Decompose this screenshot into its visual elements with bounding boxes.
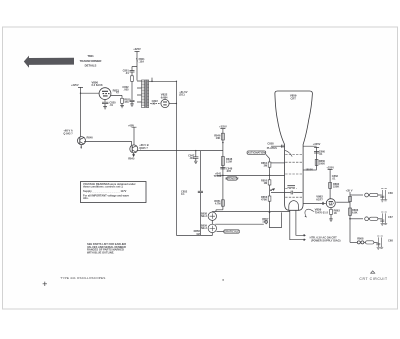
astigmatism control box	[247, 151, 266, 154]
arrow to T801 transformer details	[24, 56, 74, 68]
fuse F801	[136, 59, 138, 62]
capacitor C860	[314, 152, 319, 153]
capacitor C848	[220, 168, 225, 169]
resistor R860	[315, 159, 318, 165]
svg-text:.01: .01	[109, 103, 113, 107]
svg-text:T5470-31-2: T5470-31-2	[315, 211, 329, 215]
wire Q843 collector to Q845	[84, 141, 132, 145]
wire transformer secondary top to V822 plate line	[149, 78, 177, 82]
title TYPE oscilloscopes	[60, 276, 105, 280]
svg-text:(POWER SUPPLY DIAG): (POWER SUPPLY DIAG)	[311, 238, 341, 242]
svg-text:T801: T801	[87, 54, 94, 58]
resistor R856	[269, 185, 271, 196]
transistor Q845	[128, 143, 149, 161]
capacitor cluster pin3	[376, 236, 383, 249]
svg-text:100K: 100K	[319, 162, 325, 166]
lamp B858	[201, 211, 217, 220]
wire V822 cathode to bus	[169, 103, 176, 105]
resistor R820	[121, 98, 124, 103]
note heater supply	[310, 236, 341, 243]
connector pin 3	[350, 241, 377, 244]
tube V862	[316, 195, 335, 208]
svg-text:DETAILS: DETAILS	[85, 63, 97, 67]
svg-text:C66: C66	[388, 191, 393, 195]
svg-text:ASTIGMATISM: ASTIGMATISM	[247, 151, 265, 155]
svg-text:R868: R868	[357, 237, 364, 241]
capacitor cluster pin1	[380, 188, 387, 202]
resistor R855	[269, 175, 271, 179]
wire long vertical bus	[175, 81, 177, 235]
svg-text:NE-2: NE-2	[201, 214, 207, 218]
svg-text:C858: C858	[267, 141, 274, 145]
svg-text:+325V: +325V	[219, 125, 227, 129]
resistor R801	[131, 76, 134, 82]
svg-text:Supply _ _ _ _ _ _ _ _ _ _ _ _: Supply _ _ _ _ _ _ _ _ _ _ _ _ _ 117V	[83, 189, 127, 193]
wire right bus	[349, 192, 351, 242]
svg-text:6.3 6AU8: 6.3 6AU8	[92, 83, 104, 87]
svg-text:.01: .01	[125, 71, 129, 75]
node +325V right of funnel	[313, 142, 321, 146]
wire second row	[215, 223, 264, 225]
capacitor C801	[130, 71, 135, 76]
svg-text:1K: 1K	[334, 211, 337, 215]
registration cross	[43, 282, 47, 286]
paragraph note	[87, 242, 126, 254]
svg-text:.001: .001	[189, 156, 195, 160]
svg-text:Q 843 ?: Q 843 ?	[63, 132, 73, 136]
svg-text:6GF7: 6GF7	[316, 197, 323, 201]
connector pin 1	[350, 193, 381, 197]
svg-text:WITH BLUE OUTLINE.: WITH BLUE OUTLINE.	[87, 250, 115, 254]
svg-text:470K: 470K	[261, 197, 267, 201]
ground	[103, 107, 107, 109]
node +325V center column	[219, 125, 227, 129]
CRT gun	[289, 201, 299, 211]
connector pin 2	[350, 217, 381, 221]
resistor R862	[329, 182, 332, 188]
svg-text:-1850V: -1850V	[305, 168, 314, 172]
svg-text:10K: 10K	[216, 136, 221, 140]
svg-text:R840: R840	[87, 136, 94, 140]
potentiometer wiper	[270, 189, 272, 191]
wire divider tap line	[199, 151, 201, 236]
node +61.5V	[179, 90, 188, 97]
wire CRT base to V862	[303, 202, 326, 204]
node grid junction	[222, 175, 224, 177]
svg-text:+35 V: +35 V	[346, 189, 353, 193]
node +325V over V862	[326, 165, 334, 169]
node +325V left	[71, 83, 79, 87]
wire lamp chain bottom to bus	[176, 233, 212, 236]
svg-text:+68V: +68V	[128, 123, 134, 127]
wire	[132, 67, 137, 81]
wire to lamp chain	[216, 210, 223, 212]
wire neck right to V862 column	[303, 169, 317, 171]
tube V800	[92, 80, 111, 101]
svg-text:these conditions: controls set: these conditions: controls set ( )	[83, 185, 123, 189]
svg-text:6.8K: 6.8K	[352, 210, 358, 214]
svg-text:TP848: TP848	[214, 174, 222, 178]
heater resistors	[357, 237, 364, 241]
svg-text:(DC): (DC)	[179, 92, 185, 96]
svg-text:6AU4: 6AU4	[161, 95, 168, 99]
svg-text:R845: R845	[128, 157, 135, 161]
svg-text:4.7M: 4.7M	[215, 201, 221, 205]
wire grid row to CRT	[223, 174, 285, 176]
tube V822	[161, 93, 169, 108]
label V859 type with leader	[315, 208, 329, 215]
svg-text:For all IMPORTANT voltage and: For all IMPORTANT voltage and wave	[83, 193, 129, 197]
wire wiper to vertical centering plate	[271, 192, 302, 194]
svg-text:15K: 15K	[262, 219, 267, 223]
svg-text:info.: info.	[83, 196, 89, 200]
svg-text:Q845 ?: Q845 ?	[139, 146, 148, 150]
terminal	[265, 220, 268, 223]
svg-text:2.2M: 2.2M	[226, 160, 232, 164]
wire center column	[222, 130, 224, 210]
wire astig wiper to CRT	[271, 162, 285, 164]
wire V822 anode left	[150, 103, 161, 105]
capacitor cluster pin2	[380, 212, 387, 226]
resistor R866	[349, 208, 352, 215]
svg-text:CRT: CRT	[291, 97, 297, 101]
ground	[130, 102, 134, 107]
test point box TP848	[227, 177, 237, 180]
svg-text:.01: .01	[319, 152, 323, 156]
wire	[316, 149, 318, 170]
label T801 TRANSFORMER DETAILS	[80, 54, 102, 67]
svg-text:+325V: +325V	[71, 83, 79, 87]
lamp B859	[201, 223, 217, 232]
center dot	[222, 279, 224, 281]
resistor R851	[222, 200, 225, 206]
capacitor C802	[130, 100, 135, 101]
svg-text:C67: C67	[388, 215, 393, 219]
capacitor C852	[198, 191, 203, 192]
svg-text:C68: C68	[388, 239, 393, 243]
CRT base pins	[290, 210, 304, 240]
wire V800 cathode right	[111, 95, 122, 98]
svg-text:TYPE 441 OSCILLOSCOPES: TYPE 441 OSCILLOSCOPES	[60, 276, 105, 280]
svg-text:2M: 2M	[264, 163, 268, 167]
svg-text:INTENSITY: INTENSITY	[225, 176, 239, 180]
svg-text:PLATES: PLATES	[267, 146, 277, 150]
wire left bus	[80, 89, 82, 137]
wire Q845 emitter bus right	[137, 150, 223, 152]
svg-text:TRANSFORMER: TRANSFORMER	[80, 59, 102, 63]
svg-text:+325V: +325V	[133, 47, 141, 51]
warning triangle	[371, 271, 375, 273]
wire gun lead curve	[285, 150, 293, 156]
potentiometer R854	[269, 159, 271, 163]
label box graticule	[217, 231, 224, 233]
svg-text:+325V: +325V	[326, 165, 334, 169]
svg-text:.01: .01	[152, 101, 156, 105]
capacitor C847	[193, 151, 198, 164]
capacitor at funnel left	[271, 145, 284, 148]
svg-text:.005: .005	[226, 169, 232, 173]
label R823	[113, 88, 120, 94]
transformer T801	[137, 80, 149, 109]
svg-text:NE-2: NE-2	[201, 226, 207, 230]
svg-text:1M: 1M	[196, 232, 200, 236]
wire V862 to right bus	[336, 201, 350, 203]
wire	[133, 129, 135, 145]
wire lamp row right	[216, 211, 290, 213]
wire R856 down to scale illum row	[270, 201, 282, 227]
resistor R848	[222, 157, 225, 166]
wire between lamps	[212, 212, 216, 225]
svg-text:.01: .01	[332, 176, 336, 180]
transistor Q843	[63, 128, 85, 148]
wire	[136, 53, 138, 67]
node +68V over Q845	[128, 123, 134, 127]
deflection plate pair upper	[287, 186, 295, 188]
title CRT CIRCUIT	[359, 277, 387, 281]
wire to V800	[81, 92, 100, 94]
CRT V859 envelope	[275, 91, 313, 210]
resistor R863 cathode	[330, 208, 332, 209]
capacitor C820	[102, 102, 108, 106]
wire	[329, 171, 331, 199]
resistor R864	[349, 196, 352, 201]
capacitor C855 series	[291, 191, 293, 195]
svg-text:GRATICULE: GRATICULE	[224, 229, 239, 233]
svg-text:0.1: 0.1	[181, 192, 185, 196]
svg-text:470: 470	[124, 100, 129, 104]
svg-text:.005: .005	[124, 88, 130, 92]
resistor R846	[222, 133, 225, 140]
capacitor labels right edge	[388, 191, 393, 243]
note box voltage conditions	[81, 182, 147, 203]
svg-text:+325V: +325V	[313, 142, 321, 146]
CRT internal dashed electrodes	[285, 154, 302, 156]
svg-text:.15A: .15A	[139, 60, 145, 64]
svg-text:CRT CIRCUIT: CRT CIRCUIT	[359, 277, 387, 281]
svg-text:220K: 220K	[333, 185, 339, 189]
svg-text:1M: 1M	[264, 181, 268, 185]
node +325V top feed	[133, 47, 141, 51]
